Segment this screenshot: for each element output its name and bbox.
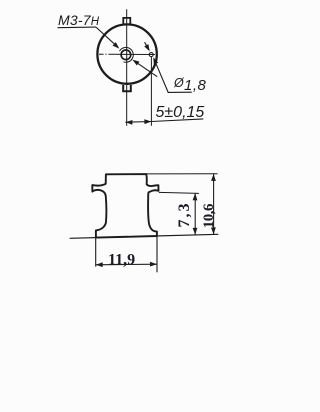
dimension line 10,6 bbox=[213, 174, 215, 235]
11,9 left extension line bbox=[95, 238, 97, 267]
body outline circle bbox=[97, 24, 156, 83]
svg-text:10,6: 10,6 bbox=[201, 203, 217, 228]
svg-text:11,9: 11,9 bbox=[108, 251, 135, 268]
leader M3-7H bbox=[96, 27, 118, 47]
vertical center line (top view) bbox=[126, 9, 128, 126]
bottom edge extension line bbox=[70, 234, 219, 238]
opposing arrow D1.8 bbox=[145, 42, 149, 50]
small hole D1.8 bbox=[149, 53, 153, 57]
thread opposite arrow bbox=[134, 61, 157, 77]
7,3 extension line bbox=[159, 192, 199, 193]
svg-text:5±0,15: 5±0,15 bbox=[156, 104, 205, 121]
front view outline bbox=[92, 174, 158, 238]
11,9 right extension line bbox=[156, 232, 158, 273]
top tab bbox=[123, 18, 130, 24]
extension line small hole bbox=[150, 57, 152, 126]
top extension line bbox=[147, 173, 218, 175]
label M3-7H underline bbox=[58, 26, 97, 29]
dimension line 7,3 bbox=[194, 193, 196, 235]
dimension line 5 with shelf bbox=[125, 119, 203, 122]
bottom tab bbox=[123, 85, 131, 91]
svg-text:1,8: 1,8 bbox=[184, 77, 207, 94]
dimension line 11,9 bbox=[96, 263, 157, 266]
thread major arc bbox=[120, 47, 134, 62]
leader D1.8 shelf bbox=[154, 59, 192, 92]
horizontal center line (top view) bbox=[99, 53, 155, 55]
thread hole M3 minor circle bbox=[121, 50, 131, 60]
svg-text:7,3: 7,3 bbox=[176, 202, 193, 228]
